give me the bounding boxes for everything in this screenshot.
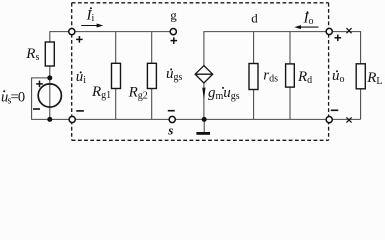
svg-text:Rd: Rd	[297, 69, 312, 86]
svg-text:rds: rds	[263, 68, 278, 85]
svg-text:Ii: Ii	[86, 8, 95, 25]
svg-text:Rg2: Rg2	[128, 85, 148, 102]
svg-text:Rg1: Rg1	[91, 84, 111, 101]
svg-text:d: d	[251, 11, 258, 26]
svg-text:s: s	[167, 123, 173, 138]
svg-text:RL: RL	[366, 70, 382, 87]
svg-text:g: g	[170, 8, 177, 23]
svg-text:uo: uo	[332, 68, 345, 85]
svg-text:ugs: ugs	[166, 66, 183, 83]
svg-text:Rs: Rs	[25, 46, 39, 63]
